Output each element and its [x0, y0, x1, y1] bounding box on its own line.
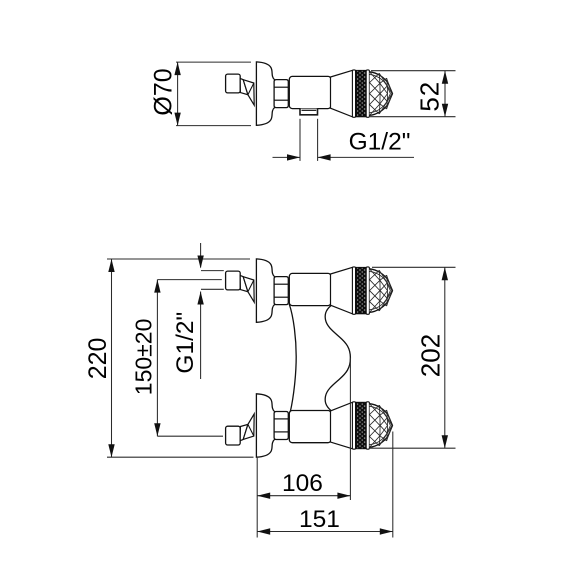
dimension G1/2" (side view) — [273, 119, 415, 161]
outlet nipple under body — [300, 109, 318, 115]
svg-text:220: 220 — [84, 338, 112, 380]
svg-text:151: 151 — [299, 506, 340, 533]
svg-text:150±20: 150±20 — [130, 319, 156, 396]
svg-text:G1/2": G1/2" — [172, 312, 199, 374]
svg-text:52: 52 — [415, 81, 445, 112]
svg-text:202: 202 — [416, 334, 446, 377]
dimension 151 — [257, 432, 393, 538]
svg-text:G1/2": G1/2" — [349, 128, 411, 155]
dimension 106 — [257, 358, 350, 538]
bottom assembly of plan view (mirrored) — [226, 394, 393, 457]
svg-text:Ø70: Ø70 — [150, 68, 178, 115]
dimension 220 — [107, 259, 254, 457]
dimension G1/2" (plan view) — [201, 243, 224, 379]
dimension 202 — [370, 267, 456, 448]
faucet assembly side view — [226, 62, 393, 125]
top assembly of plan view — [226, 259, 393, 322]
central body left edge — [289, 304, 296, 412]
central body right edge (S curve) — [325, 306, 350, 411]
dimension Ø70 — [176, 62, 251, 126]
svg-text:106: 106 — [282, 470, 323, 497]
dimension 52 — [370, 71, 456, 117]
dimension 150±20 — [157, 280, 223, 437]
